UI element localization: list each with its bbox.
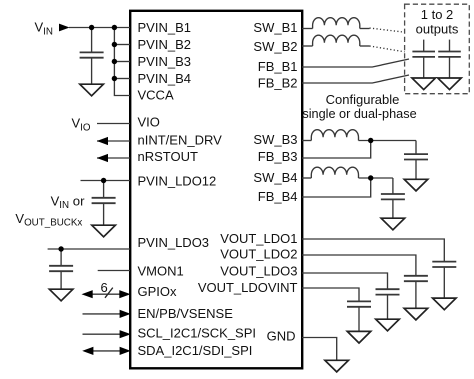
svg-text:FB_B4: FB_B4 [258, 189, 298, 204]
svg-text:SCL_I2C1/SCK_SPI: SCL_I2C1/SCK_SPI [138, 326, 257, 341]
wire: GPIOx bus [85, 293, 127, 295]
inductor L2 (SW_B2) [313, 35, 360, 46]
ground (LDO3 out) [376, 319, 400, 331]
svg-text:PVIN_B3: PVIN_B3 [138, 54, 191, 69]
wire: PVIN_LDO12 [81, 180, 131, 182]
svg-text:PVIN_LDO3: PVIN_LDO3 [138, 235, 210, 250]
svg-text:FB_B2: FB_B2 [258, 76, 298, 91]
junction dot: VIN cap tap [89, 25, 94, 30]
wire: dotted link L1 to output box [360, 28, 370, 30]
junction dot: LDO3 cap tap [58, 246, 63, 251]
wire: VOUT_LDO3 [302, 273, 388, 289]
wire: C6 to ground [415, 160, 417, 180]
ground (buck3 out) [404, 179, 428, 191]
wire: nINT/EN_DRV [97, 140, 130, 142]
ground (GND pin) [325, 360, 349, 372]
junction dot: SW_B3 / FB_B3 node [368, 138, 373, 143]
svg-text:VOUT_LDO3: VOUT_LDO3 [220, 264, 297, 279]
svg-text:PVIN_B4: PVIN_B4 [138, 71, 191, 86]
node VIN: wire from source arrow to PVIN_B1 [69, 27, 130, 29]
svg-text:GND: GND [267, 329, 296, 344]
ground (LDOVINT out) [347, 331, 371, 343]
junction dot: LDO12 cap tap [101, 178, 106, 183]
wire: C5 to ground [449, 57, 451, 78]
svg-text:EN/PB/VSENSE: EN/PB/VSENSE [138, 306, 234, 321]
wire: SW_B3 stub [302, 140, 311, 142]
capacitor C5 (output 2) plates [438, 52, 461, 57]
ground (LDO1 out) [433, 298, 457, 310]
svg-text:6: 6 [101, 280, 108, 295]
inductor L3 (SW_B3) [311, 130, 358, 141]
wire: C4 to ground [423, 57, 425, 78]
wire: vertical bus VIN to PVIN_B2..B4 and VCCA [114, 28, 130, 96]
junction dot: bus B2 [112, 42, 117, 47]
svg-text:1 to 2: 1 to 2 [421, 7, 454, 22]
junction dot: SW_B4 / FB_B4 node [368, 175, 373, 180]
wire: GND pin [302, 338, 337, 361]
wire: nRSTOUT [97, 157, 130, 159]
capacitor C9 (LDO2 out) plates [404, 276, 428, 281]
wire: EN/PB/VSENSE [83, 313, 125, 315]
svg-text:SW_B1: SW_B1 [253, 20, 297, 35]
inductor L1 (SW_B1) [313, 18, 360, 29]
wire: stub PVIN_B4 [114, 78, 130, 80]
wire: VOUT_LDO1 [302, 239, 444, 261]
capacitor C2 (PVIN_LDO12) plates [92, 198, 116, 203]
inductor L4 (SW_B4) [311, 167, 358, 178]
bus slash (GPIOx width 6) [105, 288, 113, 298]
junction dot: VIN bus top [112, 25, 117, 30]
wire: dotted link L2 to output box [360, 45, 370, 47]
ground (LDO12 cap) [92, 225, 116, 237]
capacitor C7 (buck4 out) plates [381, 194, 405, 199]
IC block U1 outline [130, 11, 302, 369]
wire: C2 to ground [103, 203, 105, 225]
wire: C9 to ground [415, 281, 417, 308]
wire: SW_B4 stub [302, 177, 311, 179]
wire: SW_B1 stub [302, 28, 313, 30]
arrow: VIN source (points right) [59, 24, 70, 32]
wire: C3 to ground [60, 271, 62, 289]
wire: VIO [97, 123, 130, 125]
svg-text:VOUT_LDOVINT: VOUT_LDOVINT [198, 280, 298, 295]
wire: C8 to ground [443, 267, 445, 298]
ground (output 1) [412, 78, 436, 90]
wire: SDA_I2C1/SDI_SPI [85, 350, 124, 352]
wire: VOUT_LDOVINT [302, 288, 359, 301]
wire: stub PVIN_B2 [114, 44, 130, 46]
ground (output 2) [438, 78, 462, 90]
capacitor C10 (LDO3 out) plates [376, 289, 400, 294]
capacitor C6 (buck3 out) plates [404, 154, 428, 159]
svg-text:nINT/EN_DRV: nINT/EN_DRV [138, 133, 223, 148]
wire: SW_B4 to cap branch [359, 177, 393, 179]
arrow: nRSTOUT (points left) [97, 154, 108, 162]
svg-text:VIN: VIN [35, 20, 53, 38]
wire: SCL_I2C1/SCK_SPI [83, 333, 125, 335]
svg-text:VOUT_BUCKx: VOUT_BUCKx [15, 211, 82, 229]
ground (buck4 out) [381, 218, 405, 230]
output box (1 to 2 outputs), dashed [405, 4, 470, 94]
wire: C10 to ground [387, 295, 389, 320]
svg-text:SDA_I2C1/SDI_SPI: SDA_I2C1/SDI_SPI [138, 343, 253, 358]
wire: LDO12 cap branch [103, 181, 105, 198]
svg-text:VMON1: VMON1 [138, 264, 184, 279]
svg-text:VCCA: VCCA [138, 88, 174, 103]
wire: VIN cap branch [91, 28, 93, 53]
svg-text:Configurable: Configurable [326, 92, 400, 107]
wire: SW_B3 to cap branch [359, 140, 417, 142]
wire: C1 to ground [91, 58, 93, 84]
wire: C7 to ground [392, 199, 394, 218]
svg-text:VOUT_LDO1: VOUT_LDO1 [220, 231, 297, 246]
wire: SW_B2 stub [302, 45, 313, 47]
wire: C11 to ground [358, 307, 360, 332]
junction dot: bus B4 [112, 76, 117, 81]
svg-text:GPIOx: GPIOx [138, 284, 178, 299]
capacitor C11 (LDOVINT out) plates [347, 301, 371, 306]
wire: LDO3 cap branch [60, 249, 62, 265]
wire: stub PVIN_B3 [114, 61, 130, 63]
wire: FB_B3 riser [302, 141, 371, 159]
arrow: GPIOx left head [82, 290, 93, 298]
arrow: EN/PB/VSENSE head [120, 310, 131, 318]
svg-text:SW_B3: SW_B3 [253, 132, 297, 147]
ground (LDO3 cap) [49, 289, 73, 301]
capacitor C4 (output 1) plates [412, 52, 435, 57]
svg-text:FB_B1: FB_B1 [258, 59, 298, 74]
capacitor C1 (VIN bypass) plates [80, 52, 104, 57]
wire: FB_B2 [302, 75, 409, 83]
ground (VIN cap) [80, 84, 104, 96]
capacitor C8 (LDO1 out) plates [432, 262, 456, 267]
svg-text:PVIN_B1: PVIN_B1 [138, 20, 191, 35]
svg-text:VOUT_LDO2: VOUT_LDO2 [220, 246, 297, 261]
svg-text:FB_B3: FB_B3 [258, 149, 298, 164]
arrow: SCL head [120, 330, 131, 338]
capacitor C3 (PVIN_LDO3) plates [49, 266, 73, 271]
arrow: nINT/EN_DRV (points left) [97, 137, 108, 145]
wire: FB_B4 riser [302, 178, 371, 197]
svg-text:PVIN_B2: PVIN_B2 [138, 37, 191, 52]
svg-text:outputs: outputs [416, 21, 459, 36]
wire: output cap 2 top stub [449, 40, 451, 52]
ground (LDO2 out) [404, 308, 428, 320]
svg-text:VIO: VIO [138, 115, 160, 130]
wire: SW_B4 cap drop [392, 178, 394, 194]
arrow: SDA left head [82, 347, 93, 355]
arrow: GPIOx right head [119, 290, 130, 298]
svg-text:VIO: VIO [72, 116, 91, 134]
svg-text:nRSTOUT: nRSTOUT [138, 149, 198, 164]
wire: output cap 1 top stub [423, 40, 425, 52]
svg-text:SW_B2: SW_B2 [253, 39, 297, 54]
wire: VMON1 [98, 270, 130, 272]
wire: VOUT_LDO2 [302, 255, 416, 275]
wire: FB_B1 [302, 59, 409, 67]
wire: PVIN_LDO3 [48, 248, 130, 250]
wire: SW_B3 cap drop [415, 141, 417, 154]
svg-text:SW_B4: SW_B4 [253, 170, 297, 185]
svg-text:PVIN_LDO12: PVIN_LDO12 [138, 174, 217, 189]
svg-text:VIN or: VIN or [51, 194, 85, 212]
arrow: SDA right head [120, 347, 131, 355]
svg-text:single or dual-phase: single or dual-phase [302, 107, 416, 121]
junction dot: bus B3 [112, 59, 117, 64]
